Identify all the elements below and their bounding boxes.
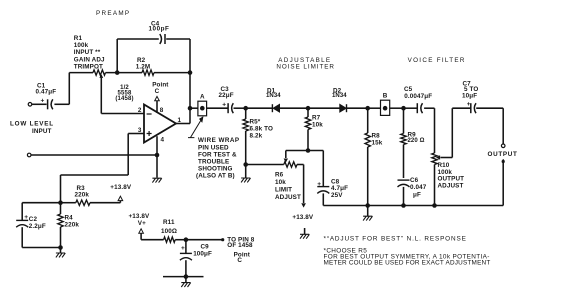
junction R9 top [401,106,406,111]
wire-wrap callout arrow [188,120,201,138]
svg-text:15k: 15k [372,140,383,147]
supply arrow down +13.8V [302,204,306,207]
wire R6 right end [297,164,304,166]
wire R3 to supply [90,202,120,204]
wire R5 to R6 [246,164,284,166]
wire riser to R1 row [68,73,70,105]
node B dot [383,106,388,111]
wire R8 node to box B [368,107,381,109]
svg-text:+: + [181,245,185,252]
wire to ground stub [60,248,62,254]
node A box [198,101,207,116]
svg-text:A: A [200,93,205,100]
junction bias node [58,200,63,205]
svg-text:1.2M: 1.2M [136,64,150,71]
input terminal J1 bottom [27,153,31,157]
svg-text:FOR TEST &: FOR TEST & [198,151,237,158]
wire R6 wiper up [285,151,287,159]
output terminal top [501,144,505,148]
wire R6 to supply drop [303,165,305,204]
wire input return [31,154,157,156]
wire C9 node to pin8 feed [186,239,223,241]
wire wiper riser to C7 [451,108,453,157]
svg-text:100Ω: 100Ω [161,228,177,235]
wire input to C1 [32,103,47,105]
wire R2 to riser [154,72,190,74]
svg-text:10μF: 10μF [462,93,477,100]
junction R5 bottom [243,162,248,167]
ground pin 4 [152,178,161,182]
ground chassis [300,234,309,238]
resistor R11 [164,237,176,242]
wire R11 to C9 node [175,239,186,241]
svg-text:OUTPUT: OUTPUT [488,151,518,158]
wire op-amp output [176,123,190,125]
wire node A to C3 [207,107,228,109]
wire drop to output [502,108,504,144]
capacitor C8 [317,186,329,188]
svg-text:100pF: 100pF [149,26,170,33]
svg-text:+: + [317,181,321,188]
R10 wiper arrow [437,156,440,159]
diode D1 1N34 [271,104,273,112]
svg-text:C6: C6 [410,177,419,184]
wire C4 right riser [189,39,191,124]
wire output riser junction [188,106,193,111]
svg-text:+: + [41,97,45,104]
diode D2 1N34 [340,104,347,112]
svg-text:μF: μF [413,191,421,198]
capacitor C7 [470,103,472,113]
svg-text:8: 8 [160,107,164,114]
wire C4 row left [117,38,159,40]
wire V+ down [140,233,142,240]
wire C7 left [452,107,470,109]
wire pin3 jog down [127,134,129,176]
wire C3 to R5 node [234,107,246,109]
svg-text:WIRE WRAP: WIRE WRAP [198,137,239,144]
ground R4/C2 [56,253,65,257]
wire D2 to R8 node [347,107,368,109]
wire pin 3 lead [128,133,144,135]
junction R10 bottom [432,203,437,208]
wire wiper row to C8 [286,150,324,152]
svg-text:220k: 220k [65,221,80,228]
wire R9 node to C5 [404,107,417,109]
svg-text:+13.8V: +13.8V [129,213,151,220]
wire output return drop [502,162,504,206]
wire C4 left riser [116,39,118,73]
svg-text:PREAMP: PREAMP [96,10,130,17]
wire C2 return [22,247,60,249]
junction R5 top [243,106,248,111]
svg-text:2: 2 [138,107,142,114]
wire C1 to riser [54,103,69,105]
capacitor C3 [227,103,229,113]
capacitor C9 [180,252,192,254]
wire C2 bottom lead [21,227,23,247]
potentiometer R10 body [434,108,436,153]
svg-text:LOW LEVEL: LOW LEVEL [10,121,54,128]
capacitor C5 [416,103,418,113]
terminal to pin 8 [221,238,224,241]
wire C6 bottom lead [403,187,405,206]
svg-text:ADJUST: ADJUST [438,182,464,189]
svg-text:R1: R1 [74,35,83,42]
svg-text:C: C [155,88,160,95]
svg-text:10k: 10k [312,121,323,128]
wire R5 node to D1 [246,107,273,109]
wire bottom bus [323,205,503,207]
R6 wiper arrow [284,159,287,162]
wire C5 to R10 [424,107,434,109]
svg-text:Point: Point [234,252,251,259]
svg-text:220k: 220k [75,191,90,198]
resistor R4 [60,203,62,214]
op-amp U1 1/2 5558 [144,105,176,143]
svg-text:C5: C5 [404,86,413,93]
svg-text:V+: V+ [138,220,146,227]
wire C4 row right [166,38,190,40]
wire C8 top lead [322,151,324,187]
wire V+ to R11 [141,239,164,241]
R1 wiper arrow [100,75,103,78]
svg-text:0.047: 0.047 [410,184,427,191]
supply arrow V+ [139,229,144,233]
svg-text:C9: C9 [201,243,210,250]
potentiometer R6 body [284,162,297,167]
svg-text:INPUT: INPUT [32,128,52,135]
wire box B to R9 node [390,107,404,109]
junction pin4/return [155,153,160,158]
svg-text:TROUBLE: TROUBLE [198,159,229,166]
resistor R1 trimpot body [93,70,106,75]
wire C8 bottom lead [322,193,324,205]
svg-text:PIN USED: PIN USED [198,144,229,151]
junction R7 top [306,106,311,111]
svg-text:100k: 100k [74,42,89,49]
wire C9 top lead [185,240,187,254]
node A dot [200,106,205,111]
junction R8 top [365,106,370,111]
wire R1 wiper down [100,78,102,114]
junction R7 bottom [306,148,311,153]
point C arrow [155,96,160,100]
svg-text:TRIMPOT: TRIMPOT [74,64,103,71]
svg-text:10k: 10k [275,179,286,186]
svg-text:SHOOTING: SHOOTING [198,166,233,173]
junction C6 bottom [401,203,406,208]
wire node A row left [190,107,198,109]
svg-text:+13.8V: +13.8V [110,184,132,191]
svg-text:R6: R6 [275,172,284,179]
junction C4 tap [115,70,120,75]
svg-text:R11: R11 [163,219,175,226]
wire D1 to R7 node [280,107,308,109]
svg-text:2.2μF: 2.2μF [29,223,46,230]
capacitor C4 [160,34,162,44]
svg-text:C: C [237,257,242,264]
svg-text:+13.8V: +13.8V [292,214,314,221]
svg-text:NOISE LIMITER: NOISE LIMITER [276,64,335,71]
pin 8 stub and label [156,101,158,113]
wire bus ground stub [367,206,369,217]
svg-text:25V: 25V [331,192,343,199]
svg-text:(1458): (1458) [115,96,133,102]
resistor R7 [307,108,309,117]
svg-text:1N34: 1N34 [332,93,347,99]
node B box [381,100,390,115]
wire C9 bottom lead [185,260,187,276]
svg-text:OF 1458: OF 1458 [227,242,253,249]
ground bus bar [163,276,204,278]
svg-text:100μF: 100μF [193,251,212,258]
wire pin3 jog left [61,174,129,176]
junction R2/C4 riser [188,70,193,75]
wire bias node left to C2 [22,202,60,204]
wire pin3 drop to bias node [60,175,62,203]
svg-text:4: 4 [161,136,165,143]
wire R5 ground stub [245,165,247,179]
svg-text:GAIN ADJ: GAIN ADJ [74,56,105,63]
svg-text:ADJUST: ADJUST [275,194,301,201]
ground bottom bus [363,216,372,220]
junction R8 bottom [365,203,370,208]
resistor R8 [367,108,369,133]
svg-text:8.2k: 8.2k [250,132,263,139]
ground C9 [181,283,190,287]
wire R7 node to D2 [308,107,340,109]
svg-text:22μF: 22μF [219,92,234,99]
svg-text:(ALSO AT B): (ALSO AT B) [196,173,235,180]
svg-text:INPUT **: INPUT ** [74,49,101,56]
ground R5 [241,178,250,182]
svg-text:B: B [383,92,388,99]
output terminal bottom [502,160,505,163]
wire R10 wiper right [440,157,452,159]
capacitor C2 [16,219,28,221]
svg-text:+: + [467,101,471,108]
junction C9 ground [184,274,189,279]
svg-text:0.47μF: 0.47μF [36,88,57,95]
svg-text:0.0047μF: 0.0047μF [404,93,432,100]
capacitor C1 [47,99,49,109]
capacitor C6 [398,179,410,181]
resistor R2 [142,70,154,75]
svg-text:*“ADJUST FOR BEST” N.L. RESPON: *“ADJUST FOR BEST” N.L. RESPONSE [324,235,467,242]
resistor R9 [403,108,405,133]
junction R4/C2 bottom [58,245,63,250]
wire wiper to op-amp pin 2 [101,113,144,115]
svg-text:1N34: 1N34 [266,93,281,99]
svg-text:LIMIT: LIMIT [275,187,292,194]
wire bias to R3 [61,202,76,204]
pin 4 lead and label [156,136,158,177]
wire R1 left lead [69,72,93,74]
junction C9 node [184,237,189,242]
resistor R3 [76,200,90,205]
resistor R5 [245,108,247,119]
svg-text:+: + [24,214,28,221]
svg-text:VOICE FILTER: VOICE FILTER [408,57,466,64]
chassis ground stub below supply [304,228,306,234]
wire C2 top lead [21,203,23,221]
wire C7 right [476,107,503,109]
input terminal J1 top [28,103,32,107]
supply arrow +13.8V at R3 [118,196,123,200]
svg-text:+: + [222,101,226,108]
wire C9 ground stub [185,277,187,283]
svg-text:METER COULD BE USED FOR EXACT: METER COULD BE USED FOR EXACT ADJUSTMENT [324,260,491,267]
svg-text:R8: R8 [372,133,381,140]
wire R1 to R2 [106,72,143,74]
svg-text:220 Ω: 220 Ω [408,138,425,144]
